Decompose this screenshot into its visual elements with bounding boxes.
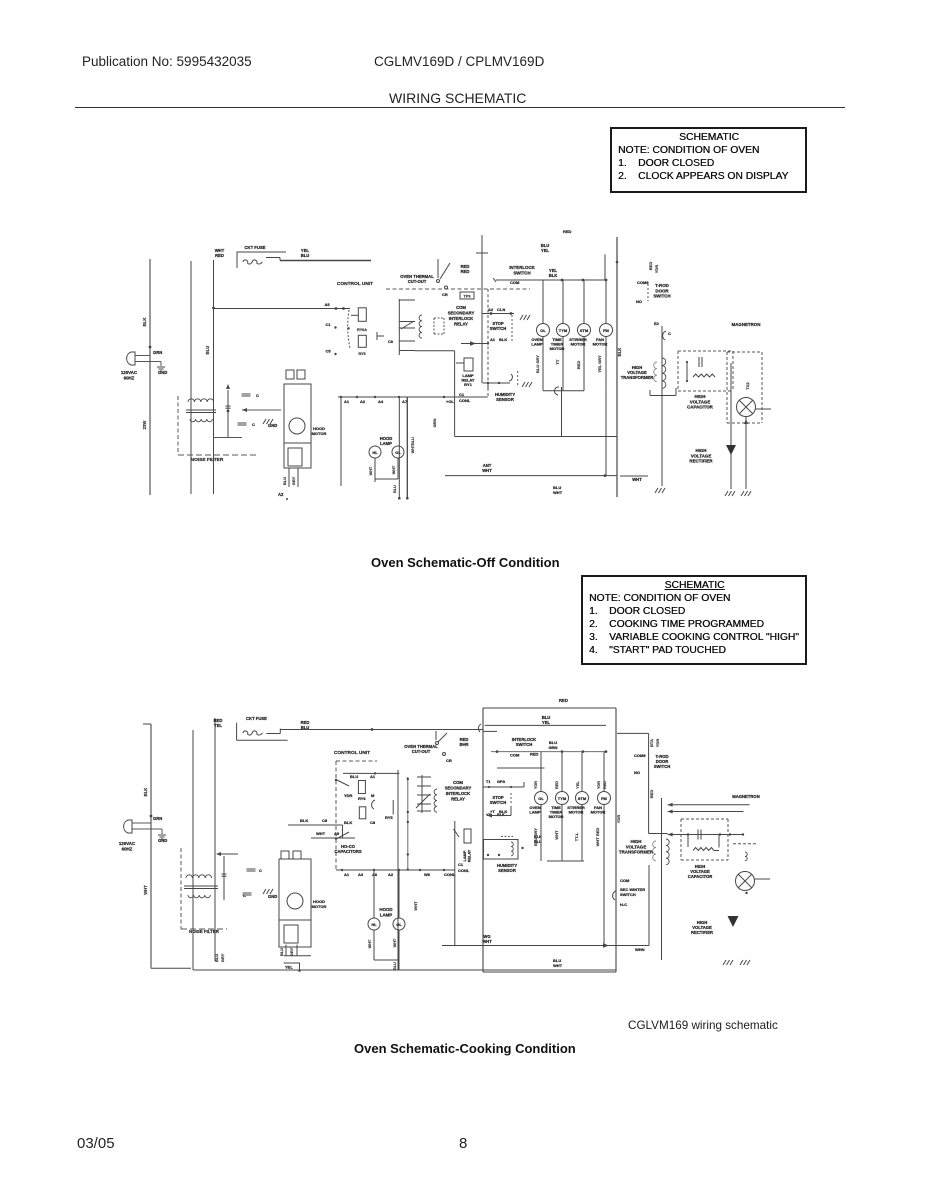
svg-text:RED: RED: [215, 253, 224, 258]
svg-text:WHT: WHT: [554, 830, 559, 840]
svg-text:MOTOR: MOTOR: [549, 814, 564, 819]
svg-text:OL: OL: [396, 922, 402, 927]
svg-text:A2: A2: [360, 399, 366, 404]
svg-text:BLK: BLK: [549, 273, 558, 278]
svg-text:TT: TT: [555, 359, 560, 364]
svg-text:RELAY: RELAY: [454, 322, 468, 327]
svg-text:BLU: BLU: [282, 477, 287, 485]
svg-text:COM: COM: [510, 280, 520, 285]
svg-text:60HZ: 60HZ: [124, 375, 135, 380]
svg-text:C5: C5: [325, 349, 331, 354]
svg-text:TYM: TYM: [558, 796, 567, 801]
svg-text:INTERLOCK: INTERLOCK: [446, 791, 470, 796]
svg-text:BLK: BLK: [300, 818, 308, 823]
svg-text:YDR: YDR: [344, 793, 353, 798]
svg-text:HIGH: HIGH: [695, 394, 706, 399]
svg-text:FM: FM: [601, 796, 607, 801]
svg-text:YEL: YEL: [541, 248, 550, 253]
svg-text:OL: OL: [395, 450, 401, 455]
svg-text:WHT: WHT: [411, 444, 415, 453]
svg-text:A5: A5: [324, 302, 330, 307]
svg-text:C8: C8: [322, 818, 328, 823]
svg-text:FM: FM: [603, 328, 609, 333]
svg-text:CAPACITOR: CAPACITOR: [688, 874, 713, 879]
svg-text:A1: A1: [490, 337, 496, 342]
svg-text:C: C: [256, 393, 259, 398]
svg-text:LAMP: LAMP: [380, 912, 393, 917]
svg-text:HIGH: HIGH: [696, 448, 707, 453]
svg-text:A2: A2: [388, 872, 394, 877]
svg-text:MOTOR: MOTOR: [571, 342, 586, 347]
svg-text:RED: RED: [530, 752, 539, 757]
svg-text:WHT: WHT: [369, 466, 373, 475]
svg-text:TP3: TP3: [464, 295, 471, 299]
svg-text:WHT RED: WHT RED: [595, 828, 600, 847]
svg-text:BLU: BLU: [301, 253, 310, 258]
svg-text:RED: RED: [563, 229, 572, 234]
svg-text:RED: RED: [649, 790, 654, 799]
svg-text:CAPACITOR: CAPACITOR: [687, 405, 714, 410]
svg-text:BLU: BLU: [205, 346, 210, 355]
svg-text:YDR: YDR: [534, 781, 538, 789]
svg-text:W6: W6: [424, 872, 431, 877]
svg-text:CKT FUSE: CKT FUSE: [246, 716, 267, 721]
svg-text:+OL: +OL: [446, 399, 454, 404]
svg-text:MOTOR: MOTOR: [569, 810, 584, 815]
svg-text:BTA: BTA: [649, 739, 654, 747]
svg-text:WHN: WHN: [635, 947, 645, 952]
svg-text:23W: 23W: [142, 421, 147, 430]
svg-text:GRN: GRN: [153, 350, 162, 355]
svg-text:NOISE FILTER: NOISE FILTER: [189, 929, 220, 934]
svg-text:COM9: COM9: [634, 753, 646, 758]
svg-text:RED: RED: [461, 269, 470, 274]
svg-text:YDR: YDR: [616, 815, 621, 824]
svg-text:GRN: GRN: [549, 745, 558, 750]
svg-text:BLU: BLU: [350, 774, 358, 779]
svg-text:BLK: BLK: [499, 337, 507, 342]
svg-text:+T: +T: [490, 809, 495, 814]
svg-text:RELAY: RELAY: [451, 797, 465, 802]
svg-text:RECTIFIER: RECTIFIER: [691, 930, 713, 935]
svg-text:CONTROL UNIT: CONTROL UNIT: [337, 281, 373, 287]
svg-text:TYM: TYM: [559, 328, 568, 333]
svg-text:A9: A9: [334, 831, 340, 836]
svg-text:CKT FUSE: CKT FUSE: [245, 245, 266, 250]
svg-text:LAMP: LAMP: [463, 850, 467, 861]
svg-text:SWITCH: SWITCH: [516, 742, 533, 747]
svg-text:CLN: CLN: [497, 307, 505, 312]
svg-text:GRN: GRN: [432, 418, 437, 427]
svg-text:YEL: YEL: [214, 723, 223, 728]
svg-text:BLU: BLU: [279, 948, 284, 956]
svg-text:SWITCH: SWITCH: [513, 270, 530, 275]
svg-text:HL: HL: [372, 450, 378, 455]
svg-text:MAGNETRON: MAGNETRON: [732, 794, 759, 799]
svg-text:NO: NO: [636, 299, 642, 304]
svg-text:WHT: WHT: [393, 938, 397, 947]
svg-text:BLK: BLK: [142, 317, 147, 327]
svg-text:DOOR: DOOR: [655, 288, 669, 293]
svg-text:GRY: GRY: [289, 947, 294, 956]
svg-text:SENSOR: SENSOR: [498, 868, 516, 873]
svg-text:WHT: WHT: [482, 468, 492, 473]
svg-text:120VAC: 120VAC: [119, 841, 136, 846]
svg-text:SWITCH: SWITCH: [653, 294, 670, 299]
svg-text:A6: A6: [372, 872, 378, 877]
svg-text:RY6: RY6: [358, 796, 366, 801]
svg-text:C: C: [668, 331, 671, 336]
svg-text:MAGNETRON: MAGNETRON: [732, 322, 761, 327]
svg-text:TRANSFORMER: TRANSFORMER: [621, 375, 654, 380]
svg-text:COM: COM: [453, 780, 463, 785]
svg-text:LAMP: LAMP: [380, 441, 392, 446]
svg-text:TX2: TX2: [745, 382, 750, 390]
svg-text:WHT: WHT: [392, 465, 396, 474]
svg-text:CUT-OUT: CUT-OUT: [412, 749, 431, 754]
svg-text:BLU: BLU: [411, 437, 415, 445]
svg-text:C: C: [243, 893, 246, 898]
svg-text:A1: A1: [344, 872, 350, 877]
svg-text:BLK: BLK: [143, 788, 148, 797]
svg-text:INTERLOCK: INTERLOCK: [449, 316, 473, 321]
svg-text:A1: A1: [370, 774, 376, 779]
svg-text:T1: T1: [486, 780, 490, 784]
svg-text:WHT: WHT: [143, 885, 148, 895]
svg-text:WHT: WHT: [482, 939, 492, 944]
svg-text:GND: GND: [268, 423, 277, 428]
svg-text:C1: C1: [325, 322, 331, 327]
svg-text:RY5: RY5: [358, 352, 365, 356]
svg-text:YEL: YEL: [285, 965, 293, 970]
svg-text:TRANSFORMER: TRANSFORMER: [619, 850, 654, 855]
svg-text:CUT-OUT: CUT-OUT: [408, 279, 427, 284]
svg-text:LAMP: LAMP: [531, 342, 543, 347]
svg-text:OL: OL: [540, 328, 546, 333]
svg-text:A1: A1: [344, 399, 350, 404]
svg-text:HIGH: HIGH: [631, 839, 642, 844]
svg-text:NOISE FILTER: NOISE FILTER: [191, 457, 224, 463]
svg-text:CONL: CONL: [459, 398, 471, 403]
svg-text:GND: GND: [158, 838, 167, 843]
svg-text:RED: RED: [555, 781, 559, 789]
svg-text:T-ROD: T-ROD: [655, 283, 669, 288]
svg-text:SWITCH: SWITCH: [490, 800, 507, 805]
svg-text:C8: C8: [388, 340, 393, 344]
svg-text:GRN: GRN: [153, 816, 162, 821]
svg-text:RY1: RY1: [464, 382, 472, 387]
svg-text:C1: C1: [459, 392, 465, 397]
svg-text:C: C: [259, 868, 262, 873]
svg-text:CONTROL UNIT: CONTROL UNIT: [334, 750, 370, 756]
svg-text:SWITCH: SWITCH: [490, 326, 507, 331]
svg-text:HL: HL: [371, 922, 377, 927]
svg-text:RED: RED: [559, 698, 568, 703]
svg-text:GND: GND: [158, 370, 167, 375]
svg-text:M: M: [371, 793, 375, 798]
svg-text:MOTOR: MOTOR: [591, 810, 606, 815]
svg-text:SECONDARY: SECONDARY: [448, 311, 475, 316]
svg-text:COM: COM: [456, 305, 466, 310]
svg-text:VOLTAGE: VOLTAGE: [690, 399, 711, 404]
svg-text:E2: E2: [654, 321, 660, 326]
svg-text:BLU: BLU: [393, 962, 397, 970]
svg-text:TT-L: TT-L: [574, 832, 579, 841]
svg-text:YEL: YEL: [576, 781, 580, 789]
svg-text:WHT: WHT: [368, 939, 372, 948]
svg-text:SENSOR: SENSOR: [496, 397, 514, 402]
svg-text:GND: GND: [268, 894, 277, 899]
svg-text:RECTIFIER: RECTIFIER: [689, 459, 713, 464]
svg-text:RED: RED: [576, 361, 581, 370]
svg-text:GRY: GRY: [220, 953, 225, 962]
svg-text:60HZ: 60HZ: [122, 846, 133, 851]
svg-text:BLK: BLK: [344, 820, 352, 825]
svg-text:WHT: WHT: [553, 963, 563, 968]
svg-text:MOTOR: MOTOR: [550, 346, 565, 351]
svg-text:OL: OL: [538, 796, 544, 801]
svg-text:BHR: BHR: [459, 742, 468, 747]
svg-text:NO: NO: [634, 770, 640, 775]
svg-text:HOOD: HOOD: [379, 907, 392, 912]
svg-text:WHT: WHT: [553, 490, 563, 495]
svg-text:BLU: BLU: [214, 954, 219, 962]
svg-text:A3: A3: [358, 872, 364, 877]
svg-text:WHT: WHT: [316, 831, 326, 836]
svg-text:COM: COM: [510, 753, 520, 758]
svg-text:BLU GRY: BLU GRY: [535, 355, 540, 373]
svg-text:A2: A2: [488, 307, 494, 312]
svg-text:COM: COM: [620, 878, 630, 883]
svg-text:BLU GRY: BLU GRY: [533, 828, 538, 846]
svg-text:LAMP: LAMP: [529, 810, 541, 815]
svg-text:STM: STM: [578, 796, 587, 801]
svg-text:BLK: BLK: [617, 348, 622, 357]
svg-text:YDR: YDR: [654, 265, 659, 274]
svg-text:MOTOR: MOTOR: [312, 904, 327, 909]
svg-text:SECONDARY: SECONDARY: [445, 786, 472, 791]
svg-text:GPS: GPS: [497, 780, 505, 784]
svg-text:C1: C1: [458, 862, 464, 867]
svg-text:C8: C8: [370, 820, 376, 825]
svg-text:H-C: H-C: [620, 902, 627, 907]
svg-text:SWITCH: SWITCH: [654, 764, 671, 769]
svg-text:RELAY: RELAY: [468, 849, 472, 862]
svg-text:CR: CR: [446, 758, 452, 763]
svg-text:YDR: YDR: [597, 781, 601, 789]
svg-text:A2: A2: [278, 492, 284, 497]
svg-text:C: C: [252, 422, 255, 427]
svg-text:MOTOR: MOTOR: [593, 342, 608, 347]
svg-text:120VAC: 120VAC: [121, 370, 138, 375]
svg-text:VOLTAGE: VOLTAGE: [626, 844, 647, 849]
svg-text:CAPACITORS: CAPACITORS: [334, 849, 362, 854]
svg-text:WHT: WHT: [632, 477, 642, 482]
svg-text:VOLTAGE: VOLTAGE: [691, 453, 712, 458]
svg-text:YDR: YDR: [655, 739, 660, 748]
svg-text:INTERLOCK: INTERLOCK: [509, 265, 535, 270]
svg-text:A4: A4: [378, 399, 384, 404]
svg-text:BLU: BLU: [393, 485, 397, 493]
svg-text:COM9: COM9: [637, 280, 649, 285]
svg-text:WHT: WHT: [413, 901, 418, 911]
svg-text:SWITCH: SWITCH: [620, 892, 636, 897]
svg-text:CONL: CONL: [444, 872, 456, 877]
svg-text:YEL: YEL: [542, 720, 551, 725]
svg-text:RED: RED: [648, 262, 653, 271]
svg-text:MOTOR: MOTOR: [312, 431, 327, 436]
svg-text:STM: STM: [580, 328, 589, 333]
svg-text:BLK: BLK: [499, 809, 507, 814]
svg-text:YEL GRY: YEL GRY: [597, 355, 602, 373]
svg-text:RY6A: RY6A: [357, 328, 367, 332]
svg-text:CONL: CONL: [458, 868, 470, 873]
svg-text:GRY: GRY: [291, 476, 296, 485]
svg-text:CR: CR: [442, 292, 448, 297]
svg-text:RY5: RY5: [385, 815, 393, 820]
